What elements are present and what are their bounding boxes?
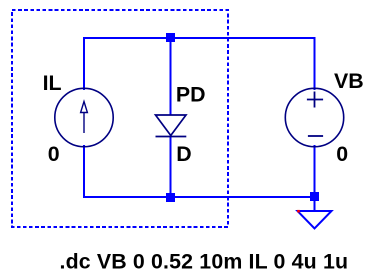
- wire IL top vertical: [83, 37, 85, 90]
- svg-text:VB: VB: [334, 69, 364, 93]
- svg-text:0: 0: [48, 142, 60, 166]
- svg-text:PD: PD: [176, 83, 206, 107]
- junction node top (diode/top wire): [166, 33, 175, 42]
- svg-text:D: D: [176, 142, 191, 166]
- junction node VB bottom: [310, 192, 319, 201]
- current source IL body: [55, 88, 113, 146]
- wire top horizontal: [83, 37, 316, 39]
- ground symbol: [298, 211, 332, 229]
- svg-text:0: 0: [336, 142, 348, 166]
- wire bottom horizontal: [83, 196, 316, 198]
- current source IL arrow: [81, 102, 88, 134]
- junction node bottom (diode/bottom wire): [166, 193, 175, 202]
- voltage source VB body: [285, 88, 343, 146]
- wire ground stub: [314, 197, 316, 211]
- wire diode top vertical: [170, 38, 172, 115]
- VB plus sign: [307, 92, 323, 108]
- diode D cathode bar: [156, 136, 187, 138]
- selection box (dashed marquee): [12, 10, 228, 227]
- VB minus sign: [308, 135, 323, 137]
- wire VB bottom vertical: [314, 145, 316, 198]
- wire IL bottom vertical: [83, 145, 85, 198]
- ground origin marker: [297, 210, 300, 213]
- svg-text:IL: IL: [43, 71, 62, 95]
- wire VB top vertical: [314, 37, 316, 90]
- diode D triangle: [156, 115, 187, 136]
- wire diode bottom vertical: [170, 136, 172, 197]
- svg-text:.dc VB 0 0.52 10m IL 0 4u 1u: .dc VB 0 0.52 10m IL 0 4u 1u: [60, 250, 349, 274]
